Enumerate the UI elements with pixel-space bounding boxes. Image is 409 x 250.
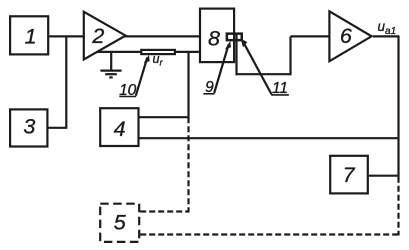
pointer line 9 <box>214 45 228 94</box>
svg-text:2: 2 <box>91 24 104 48</box>
wire amp6 input <box>291 35 331 37</box>
box 1 <box>10 16 48 54</box>
svg-text:6: 6 <box>340 24 352 48</box>
wire feedback line through resistor to box8 <box>97 51 200 53</box>
pointer line 10 <box>136 58 148 96</box>
wire right vertical from amp6 output <box>397 36 399 176</box>
svg-text:10: 10 <box>119 82 137 99</box>
pointer line 11 <box>243 41 272 94</box>
box 4 <box>100 108 138 146</box>
wire box7 to right vertical <box>369 175 400 177</box>
wire element to amp6 horizontal <box>236 73 292 75</box>
wire from element 9 down <box>235 34 237 76</box>
label 9 underline <box>203 93 214 95</box>
svg-text:5: 5 <box>114 211 127 235</box>
box 8 <box>200 9 234 63</box>
resistor 10 <box>141 50 175 54</box>
wire dashed box5 lower long <box>140 233 399 235</box>
svg-text:8: 8 <box>208 27 220 51</box>
wire box3 to junction <box>48 127 67 129</box>
arrowhead of pointer 9 <box>225 41 231 49</box>
element 9/11 sensor on box8 edge <box>227 34 242 41</box>
ground <box>110 52 112 70</box>
wire amp6 output <box>373 35 400 37</box>
label 11 underline <box>271 94 289 96</box>
svg-text:7: 7 <box>343 163 356 187</box>
wire box1 to amp2 <box>49 35 83 37</box>
op-amp 2 <box>84 12 126 60</box>
wire vertical up to amp6 input <box>289 36 291 75</box>
box 3 <box>10 109 47 146</box>
box 5 dashed <box>100 204 139 242</box>
label 10 underline <box>119 96 136 98</box>
wire amp2 output to box8 <box>125 35 200 37</box>
wire junction vertical to box3 <box>65 36 67 127</box>
svg-text:1: 1 <box>25 24 37 48</box>
wire dashed vertical right <box>397 177 399 236</box>
svg-text:9: 9 <box>205 79 214 96</box>
wire branch vertical resistor line to box4 <box>187 52 189 117</box>
wire dashed vertical to box5 <box>187 117 189 211</box>
wire box4 lower long line to right vertical <box>140 137 400 139</box>
svg-text:11: 11 <box>272 80 288 97</box>
wire dashed box5 upper <box>140 210 189 212</box>
wire box4 upper <box>140 116 190 118</box>
op-amp 6 <box>329 11 371 61</box>
svg-text:3: 3 <box>23 115 35 139</box>
box 7 <box>330 156 368 194</box>
arrowhead of pointer 10 <box>144 55 150 63</box>
arrowhead of pointer 11 <box>241 39 248 48</box>
svg-text:4: 4 <box>114 117 126 141</box>
